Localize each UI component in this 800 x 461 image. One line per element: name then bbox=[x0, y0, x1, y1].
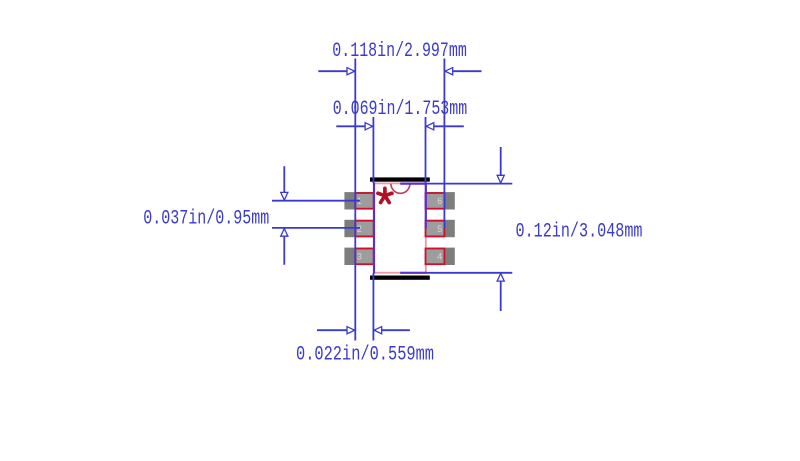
pad 2 fab outline bbox=[355, 221, 373, 237]
pad 2 copper bbox=[344, 220, 373, 237]
pin 1 marker asterisk bbox=[378, 188, 392, 202]
svg-text:0.022in/0.559mm: 0.022in/0.559mm bbox=[296, 344, 434, 367]
dimension label 0.118in/2.997mm bbox=[332, 40, 467, 63]
0.022 dimension left arrow line bbox=[317, 327, 355, 334]
extension line left of 0.118 dimension bbox=[354, 59, 356, 341]
pin number 3 bbox=[357, 252, 362, 262]
svg-text:0.069in/1.753mm: 0.069in/1.753mm bbox=[333, 98, 468, 121]
svg-text:0.12in/3.048mm: 0.12in/3.048mm bbox=[516, 221, 643, 244]
silkscreen bar top bbox=[370, 177, 430, 181]
extension line left of 0.069 dimension (lower part below body) bbox=[372, 273, 374, 340]
pad 6 copper bbox=[426, 192, 455, 209]
0.069 dimension left arrow line bbox=[336, 123, 373, 130]
pad 3 fab outline bbox=[355, 249, 373, 265]
extension line right of 0.118 dimension bbox=[443, 59, 445, 229]
dimension label 0.12in/3.048mm bbox=[516, 221, 643, 244]
svg-text:5: 5 bbox=[437, 224, 442, 234]
pad 4 fab outline bbox=[426, 249, 445, 265]
dimension label 0.069in/1.753mm bbox=[333, 98, 468, 121]
purple overlap: extension line over body left edge bbox=[373, 183, 375, 274]
svg-text:4: 4 bbox=[437, 252, 442, 262]
0.022 dimension right arrow line bbox=[373, 327, 410, 334]
extension line right of 0.069 dimension bbox=[425, 117, 427, 183]
dimension label 0.037in/0.95mm bbox=[143, 207, 269, 230]
pad 5 copper bbox=[426, 220, 455, 237]
extension line left of 0.069 dimension (upper part) bbox=[372, 117, 374, 183]
0.037 dimension lower reference line into pad 2 bbox=[272, 227, 360, 229]
0.118 dimension right arrow line bbox=[444, 68, 481, 75]
pad 1 copper bbox=[344, 192, 373, 209]
0.12 dimension lower reference line bbox=[426, 272, 512, 274]
pad 3 copper bbox=[344, 248, 373, 265]
pad 1 fab outline bbox=[355, 193, 373, 209]
0.12 dimension upper reference line bbox=[426, 183, 512, 185]
pin number 5 bbox=[437, 224, 442, 234]
svg-text:2: 2 bbox=[357, 224, 362, 234]
pad 4 copper bbox=[426, 248, 455, 265]
0.037 dimension upper reference line into pad 1 bbox=[272, 200, 360, 202]
pin number 6 bbox=[437, 196, 442, 206]
0.12 dimension upper arrow stem bbox=[497, 147, 504, 184]
0.037 dimension upper arrow stem bbox=[281, 166, 288, 201]
dimension label 0.022in/0.559mm bbox=[296, 344, 434, 367]
pad 5 fab outline bbox=[426, 221, 445, 237]
purple overlap: dimension line over body top edge bbox=[400, 183, 427, 185]
0.037 dimension lower arrow stem bbox=[281, 228, 288, 265]
silkscreen bar bottom bbox=[370, 276, 430, 280]
0.12 dimension lower arrow stem bbox=[497, 273, 504, 311]
svg-text:6: 6 bbox=[437, 196, 442, 206]
pin number 1 bbox=[357, 196, 362, 206]
component body outline (fab layer) bbox=[374, 183, 426, 272]
pad 6 fab outline bbox=[426, 193, 445, 209]
purple overlap: dimension line over body bottom edge bbox=[400, 272, 427, 274]
svg-text:0.118in/2.997mm: 0.118in/2.997mm bbox=[332, 40, 467, 63]
svg-text:0.037in/0.95mm: 0.037in/0.95mm bbox=[143, 207, 269, 230]
orientation arc on body top bbox=[391, 184, 410, 194]
pin number 4 bbox=[437, 252, 442, 262]
purple overlap: extension line over body right edge upper part bbox=[425, 183, 427, 229]
svg-text:3: 3 bbox=[357, 252, 362, 262]
pin number 2 bbox=[357, 224, 362, 234]
0.069 dimension right arrow line bbox=[426, 123, 464, 130]
0.118 dimension left arrow line bbox=[318, 68, 355, 75]
